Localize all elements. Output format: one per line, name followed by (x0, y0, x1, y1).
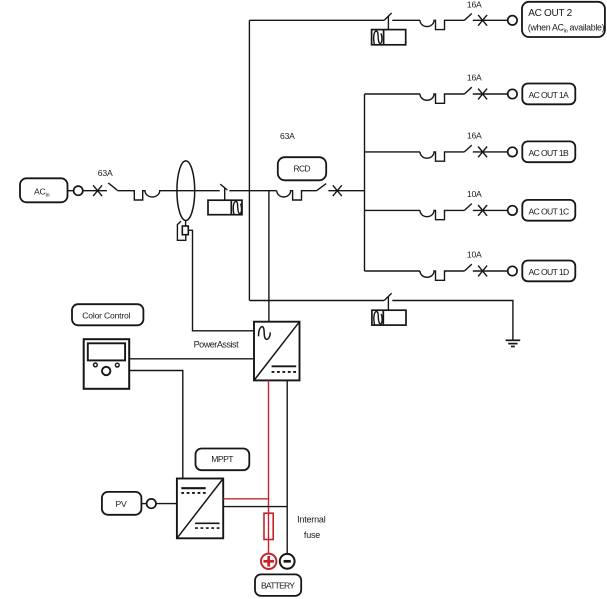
breaker symbol (1A) (420, 94, 464, 103)
svg-text:AC OUT 1B: AC OUT 1B (529, 148, 570, 158)
wire with fuse X to terminal (AC OUT 2) (473, 19, 508, 21)
terminal circle (1B) (508, 147, 517, 156)
PV label box (102, 492, 141, 515)
panel wheel (102, 367, 110, 375)
terminal circle (PV) (147, 499, 156, 508)
RCD label box (278, 157, 326, 180)
fuse X (1B) (478, 147, 487, 158)
fuse X (1A) (478, 89, 487, 100)
svg-text:PowerAssist: PowerAssist (194, 340, 240, 350)
wire: CT sense lead to inverter PowerAssist input (188, 230, 254, 330)
Internal fuse label (297, 514, 326, 540)
MPPT solar charger box (177, 479, 223, 539)
bottom rail wire: K3 to ground drop (392, 301, 513, 340)
panel display (88, 343, 125, 360)
Color Control GX panel (84, 339, 130, 389)
svg-text:16A: 16A (467, 73, 482, 83)
svg-text:Color Control: Color Control (82, 311, 130, 321)
wire: bus to breaker (1A) (365, 93, 421, 95)
battery + terminal (261, 554, 276, 569)
AC OUT 1C label box (522, 200, 575, 221)
battery - terminal (280, 554, 295, 569)
svg-text:RCD: RCD (294, 164, 311, 174)
breaker symbol (1B) (420, 152, 464, 161)
wire: AC in box to terminal circle (68, 190, 74, 192)
wire: PV box to terminal circle (141, 503, 146, 505)
svg-text:BATTERY: BATTERY (261, 580, 295, 590)
battery positive wire (red) from inverter to + terminal (268, 380, 270, 553)
Color Control label box (72, 304, 143, 325)
MPPT label box (196, 449, 250, 471)
breaker thermal-magnetic symbol (AC in): notch then arc (117, 191, 176, 200)
svg-text:63A: 63A (98, 168, 113, 178)
svg-text:10A: 10A (467, 250, 482, 260)
CT clamp connector (177, 221, 188, 241)
svg-text:AC OUT 2: AC OUT 2 (528, 8, 572, 19)
current transformer ellipse (177, 161, 195, 221)
bottom rail wire: V1 corner to relay K3 (249, 300, 384, 302)
wire: PV terminal to MPPT (156, 503, 177, 505)
top rail: K2 to breaker (392, 19, 420, 21)
svg-text:AC OUT 1A: AC OUT 1A (529, 90, 570, 100)
AC out distribution bus (vertical) (364, 94, 366, 271)
internal fuse F1 (red rectangle) (264, 513, 273, 539)
svg-text:63A: 63A (280, 131, 295, 141)
battery negative wire (black) from inverter to - terminal (286, 380, 288, 553)
svg-text:10A: 10A (467, 189, 482, 199)
svg-text:fuse: fuse (304, 530, 320, 540)
relay K2 coil box (coil in left cell) (372, 30, 406, 45)
wire with fuse X (1A) (473, 93, 508, 95)
fuse X (after RCD) (333, 185, 342, 196)
svg-text:Internal: Internal (297, 514, 326, 524)
breaker symbol (1C) (420, 210, 464, 219)
wire: circle to switch, passes through fuse X (83, 190, 107, 192)
svg-text:PV: PV (116, 499, 127, 509)
panel button right (115, 363, 119, 367)
DC symbol (inverter) (272, 365, 297, 367)
DC symbol (MPPT output) (195, 522, 219, 524)
wire with fuse X (1B) (473, 151, 508, 153)
wire: bus to breaker (1D) (365, 270, 421, 272)
fuse X (AC in, 63A) (93, 185, 102, 196)
svg-text:16A: 16A (467, 0, 482, 10)
AC OUT 1A label box (522, 84, 575, 105)
wire: RCD switch to AC bus, passes through fuse X (328, 190, 364, 192)
AC OUT 2 label box (522, 2, 605, 37)
AC OUT 1B label box (522, 141, 575, 162)
svg-text:16A: 16A (467, 131, 482, 141)
DC symbol (MPPT input) (181, 487, 205, 489)
terminal circle (1A) (508, 89, 517, 98)
wire: panel to MPPT (129, 371, 183, 479)
relay K1 coil box (208, 200, 242, 215)
terminal circle (1D) (508, 266, 517, 275)
svg-text:AC OUT 1C: AC OUT 1C (529, 206, 570, 216)
relay K3 coil box (coil in left cell) (372, 310, 406, 325)
AC in source box (20, 178, 68, 202)
terminal circle (AC OUT 2) (508, 16, 517, 25)
BATTERY label box (255, 574, 301, 596)
svg-text:AC OUT 1D: AC OUT 1D (529, 267, 570, 277)
switch blade (1B) (464, 145, 471, 152)
relay K3 contact (ground relay) (384, 293, 391, 310)
wire: through CT to relay K1 (177, 190, 220, 192)
top rail wire to relay K2 (249, 19, 384, 21)
wire: panel to inverter (129, 358, 254, 360)
vertical feed V1: top rail to bottom ground-relay rail (248, 20, 250, 300)
svg-text:MPPT: MPPT (211, 454, 234, 464)
wire with fuse X (1C) (473, 209, 508, 211)
relay K2 contact (AC OUT 2) (384, 13, 391, 30)
switch blade (AC in breaker contact) (108, 183, 117, 190)
wire: bus to breaker (1B) (365, 151, 421, 153)
relay K1 contact (input transfer switch) (220, 184, 227, 200)
fuse X (AC OUT 2) (478, 15, 487, 26)
fuse X (1C) (478, 205, 487, 216)
vertical feed V2: main line to inverter AC input (268, 191, 270, 322)
AC sine symbol (inverter) (259, 327, 271, 340)
fuse X (1D) (478, 266, 487, 277)
switch blade (1D) (464, 264, 471, 271)
switch blade (AC OUT 2) (464, 14, 471, 21)
black branch: MPPT output - to battery negative wire (223, 506, 287, 508)
wire with fuse X (1D) (473, 270, 508, 272)
switch blade (1A) (464, 87, 471, 94)
breaker symbol (1D) (420, 271, 464, 280)
ground symbol (506, 340, 521, 346)
breaker symbol (AC OUT 2, 16A): arc then notch (420, 20, 464, 29)
red branch: MPPT output + to battery positive wire (223, 498, 268, 500)
terminal circle (AC in) (74, 186, 83, 195)
RCD breaker symbol: arc then notch (277, 191, 317, 200)
RCD switch blade (317, 184, 327, 191)
AC OUT 1D label box (522, 261, 575, 282)
wire: K1 to RCD breaker (crosses verticals) (229, 190, 276, 192)
terminal circle (1C) (508, 206, 517, 215)
panel button left (94, 363, 98, 367)
switch blade (1C) (464, 204, 471, 211)
inverter/charger U1 box (254, 322, 300, 381)
wire: bus to breaker (1C) (365, 209, 421, 211)
